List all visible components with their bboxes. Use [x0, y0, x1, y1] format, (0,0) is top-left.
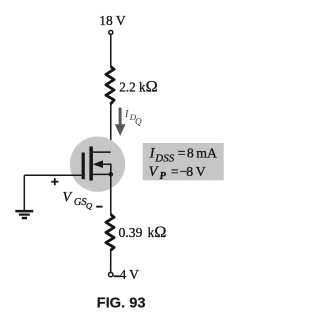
svg-text:2.2 kΩ: 2.2 kΩ — [119, 77, 157, 95]
resistor RS — [106, 215, 114, 251]
value label 2.2 kΩ — [119, 77, 157, 95]
terminal VDD — [109, 30, 113, 34]
wire RS to VSS terminal — [110, 250, 112, 272]
label VGSQ — [63, 189, 93, 210]
svg-text:4 V: 4 V — [120, 267, 140, 282]
ground — [15, 210, 33, 219]
svg-text:0.39kΩ: 0.39kΩ — [119, 223, 167, 241]
transistor envelope circle — [70, 137, 125, 192]
label IDQ — [124, 108, 142, 126]
node VDD label 18 V — [99, 13, 126, 28]
spec text VP = -8 V — [149, 164, 206, 182]
svg-text:18 V: 18 V — [99, 13, 126, 28]
current arrow IDQ — [115, 108, 126, 136]
value label 0.39 kΩ — [119, 223, 167, 241]
svg-text:IDQ: IDQ — [124, 108, 142, 126]
spec box — [143, 143, 224, 180]
resistor RD — [106, 67, 114, 104]
spec text IDSS = 8 mA — [149, 146, 217, 165]
wire gate to ground — [23, 175, 25, 210]
transistor Q1 channel bar — [89, 147, 93, 181]
terminal VSS — [109, 272, 113, 276]
transistor Q1 gate bar — [82, 153, 85, 180]
wire VDD to RD — [110, 35, 112, 67]
caption FIG. 93 — [97, 296, 146, 312]
polarity minus sign — [96, 206, 102, 208]
svg-text:VGSQ: VGSQ — [63, 189, 93, 210]
wire source to RS — [110, 177, 112, 216]
polarity plus sign — [51, 178, 58, 185]
svg-text:FIG. 93: FIG. 93 — [97, 296, 146, 312]
substrate arrowhead — [93, 160, 103, 168]
junction dot source — [109, 172, 114, 177]
node VSS label -4 V — [114, 267, 140, 282]
source contact wire — [93, 173, 111, 175]
wire RD to drain — [93, 104, 111, 152]
substrate lead wire — [95, 164, 111, 174]
drain contact wire — [93, 151, 111, 153]
wire gate lead — [24, 174, 81, 176]
